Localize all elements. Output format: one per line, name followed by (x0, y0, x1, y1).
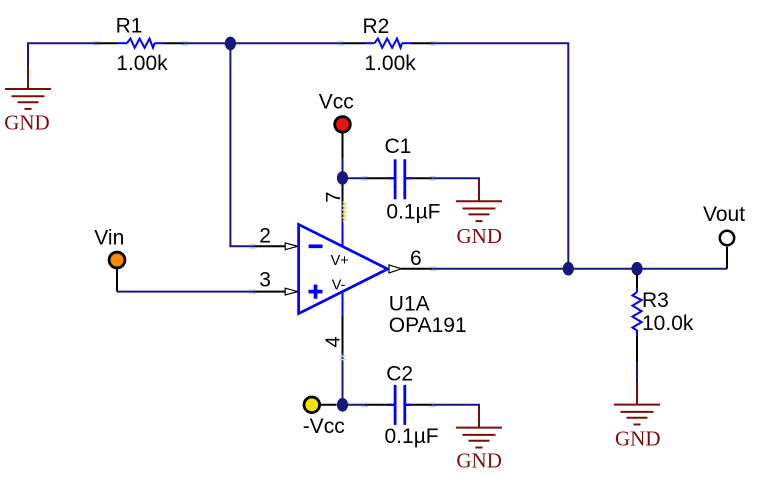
svg-text:C2: C2 (386, 363, 413, 386)
junction node A (feedback tap) (225, 37, 236, 51)
capacitor C2 value label (385, 425, 439, 448)
op-amp U1A V+ label (331, 253, 349, 269)
junction node B (V+ supply / C1) (337, 171, 348, 185)
svg-text:C1: C1 (385, 135, 412, 158)
wire warning squiggle (yellow) on pin 7 wire (343, 202, 346, 222)
op-amp U1A part number label (389, 314, 467, 337)
junction node E (R3 tap) (631, 262, 642, 276)
capacitor C2 reference label (386, 363, 413, 386)
op-amp U1A pin 6 number (410, 247, 422, 270)
terminal -Vcc (304, 397, 337, 413)
capacitor C1 value label (386, 200, 440, 223)
op-amp U1A pin 2 number (259, 225, 271, 248)
connection marker ticks (pale blue) (93, 42, 438, 407)
op-amp U1A pin 6 output lead (389, 265, 433, 273)
ground GND2 label (457, 224, 503, 248)
svg-text:R1: R1 (116, 15, 143, 38)
junction node D (feedback joins output) (563, 262, 574, 276)
terminal -Vcc label (303, 415, 345, 438)
resistor R3 reference label (642, 289, 669, 312)
svg-text:V+: V+ (331, 253, 349, 269)
wire: top rail from R1 to R2 (184, 42, 342, 44)
ground GND2 (456, 180, 502, 221)
wire: node A down to inverting input (230, 43, 253, 246)
svg-text:Vcc: Vcc (319, 90, 354, 113)
svg-text:GND: GND (457, 224, 503, 248)
wire: pin 4 to -Vcc junction (342, 353, 344, 404)
svg-text:10.0k: 10.0k (642, 312, 694, 335)
terminal Vout (720, 231, 734, 269)
svg-text:0.1µF: 0.1µF (386, 200, 440, 223)
ground GND3 label (456, 449, 502, 473)
wire: C2 to GND3 (432, 405, 479, 410)
svg-text:OPA191: OPA191 (389, 314, 467, 337)
svg-text:Vin: Vin (94, 227, 124, 250)
resistor R3 value label (642, 312, 694, 335)
op-amp U1A triangle body (299, 224, 388, 313)
op-amp U1A pin 4 number (rotated) (323, 336, 345, 347)
wire: pin 7 to supply junction (342, 202, 344, 225)
ground GND4 label (615, 426, 661, 450)
resistor R1 (95, 39, 185, 48)
op-amp U1A reference label (389, 293, 430, 316)
resistor R2 value label (364, 52, 416, 75)
svg-text:Vout: Vout (703, 203, 745, 226)
wire: R3 to GND4 (636, 361, 638, 383)
svg-text:1.00k: 1.00k (364, 52, 416, 75)
resistor R2 (342, 39, 434, 48)
op-amp U1A pin 7 lead (black) (342, 181, 344, 202)
resistor R3 (632, 274, 641, 361)
svg-text:6: 6 (410, 247, 422, 270)
svg-text:GND: GND (615, 426, 661, 450)
op-amp U1A V- supply stub (blue) (342, 292, 344, 315)
terminal Vin (109, 252, 125, 292)
ground GND1 (5, 68, 51, 109)
svg-text:4: 4 (323, 336, 345, 347)
svg-text:GND: GND (4, 110, 50, 134)
wire: GND1 stub up to top rail left corner (28, 43, 95, 68)
op-amp U1A minus input symbol (309, 244, 323, 248)
capacitor C2 (365, 385, 432, 425)
svg-text:3: 3 (259, 269, 271, 292)
wire: feedback from R2 right down to output node (433, 43, 568, 269)
svg-text:7: 7 (323, 192, 345, 203)
op-amp U1A pin 3 number (259, 269, 271, 292)
svg-text:GND: GND (456, 449, 502, 473)
wire: Vcc lead to supply junction (342, 158, 344, 172)
wire: junction B to C1 (343, 177, 366, 179)
wire: C1 to GND2 (432, 178, 479, 182)
op-amp U1A V- label (332, 277, 346, 293)
svg-text:2: 2 (259, 225, 271, 248)
svg-text:-Vcc: -Vcc (303, 415, 345, 438)
terminal Vcc (335, 117, 351, 158)
op-amp U1A pin 2 lead (253, 243, 298, 250)
terminal Vcc label (319, 90, 354, 113)
resistor R1 reference label (116, 15, 143, 38)
terminal Vin label (94, 227, 124, 250)
svg-text:U1A: U1A (389, 293, 430, 316)
op-amp U1A pin 7 number (rotated) (323, 192, 345, 203)
capacitor C1 reference label (385, 135, 412, 158)
wire: output bus from pin 6 to Vout (433, 268, 727, 270)
op-amp U1A V+ supply stub (blue) (342, 225, 344, 247)
terminal Vout label (703, 203, 745, 226)
op-amp U1A pin 4 lead (black) (342, 315, 344, 353)
junction node C (V- supply / C2) (337, 398, 348, 412)
wire: Vin to non-inverting input (117, 291, 253, 293)
op-amp U1A pin 3 lead (253, 288, 298, 295)
resistor R1 value label (116, 52, 168, 75)
ground GND1 label (4, 110, 50, 134)
ground GND3 (456, 407, 502, 448)
op-amp U1A plus input symbol (309, 285, 323, 299)
svg-text:R2: R2 (363, 15, 390, 38)
svg-text:V-: V- (332, 277, 346, 293)
resistor R2 reference label (363, 15, 390, 38)
svg-text:1.00k: 1.00k (116, 52, 168, 75)
capacitor C1 (365, 159, 432, 199)
svg-text:R3: R3 (642, 289, 669, 312)
wire: junction C to C2 (343, 404, 366, 406)
ground GND4 (614, 382, 660, 425)
svg-text:0.1µF: 0.1µF (385, 425, 439, 448)
